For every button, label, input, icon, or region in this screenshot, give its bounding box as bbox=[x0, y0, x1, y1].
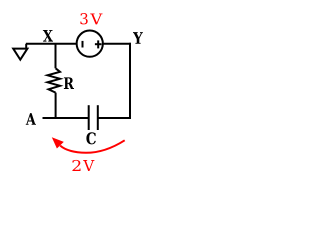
2V arrow arc bbox=[60, 140, 125, 153]
2V arrowhead bbox=[52, 137, 64, 148]
node A bbox=[26, 113, 36, 125]
wire: right vertical from Y down to capacitor side bbox=[129, 43, 131, 119]
wire: node X to ground drop bbox=[26, 43, 56, 45]
ground bbox=[13, 44, 27, 60]
node Y bbox=[133, 32, 143, 44]
label R bbox=[64, 77, 74, 89]
wire: voltage source right terminal to node Y corner bbox=[103, 43, 131, 45]
wire: node X down to resistor top bbox=[55, 44, 57, 69]
voltage source U1 (3V battery) bbox=[77, 31, 103, 57]
value label 3V bbox=[80, 13, 102, 24]
label C bbox=[86, 132, 95, 144]
capacitor C bbox=[89, 105, 98, 130]
resistor R bbox=[48, 68, 61, 92]
wire: resistor bottom down to bottom rail bbox=[55, 93, 57, 119]
wire: capacitor right plate to right rail bbox=[98, 117, 131, 119]
wire: node X to voltage source left terminal bbox=[56, 43, 77, 45]
wire: node A rail to capacitor left plate bbox=[43, 117, 89, 119]
minus plate bar inside source bbox=[82, 41, 84, 48]
value label 2V bbox=[72, 160, 94, 171]
node X bbox=[43, 30, 53, 42]
plus sign inside source bbox=[95, 40, 102, 48]
